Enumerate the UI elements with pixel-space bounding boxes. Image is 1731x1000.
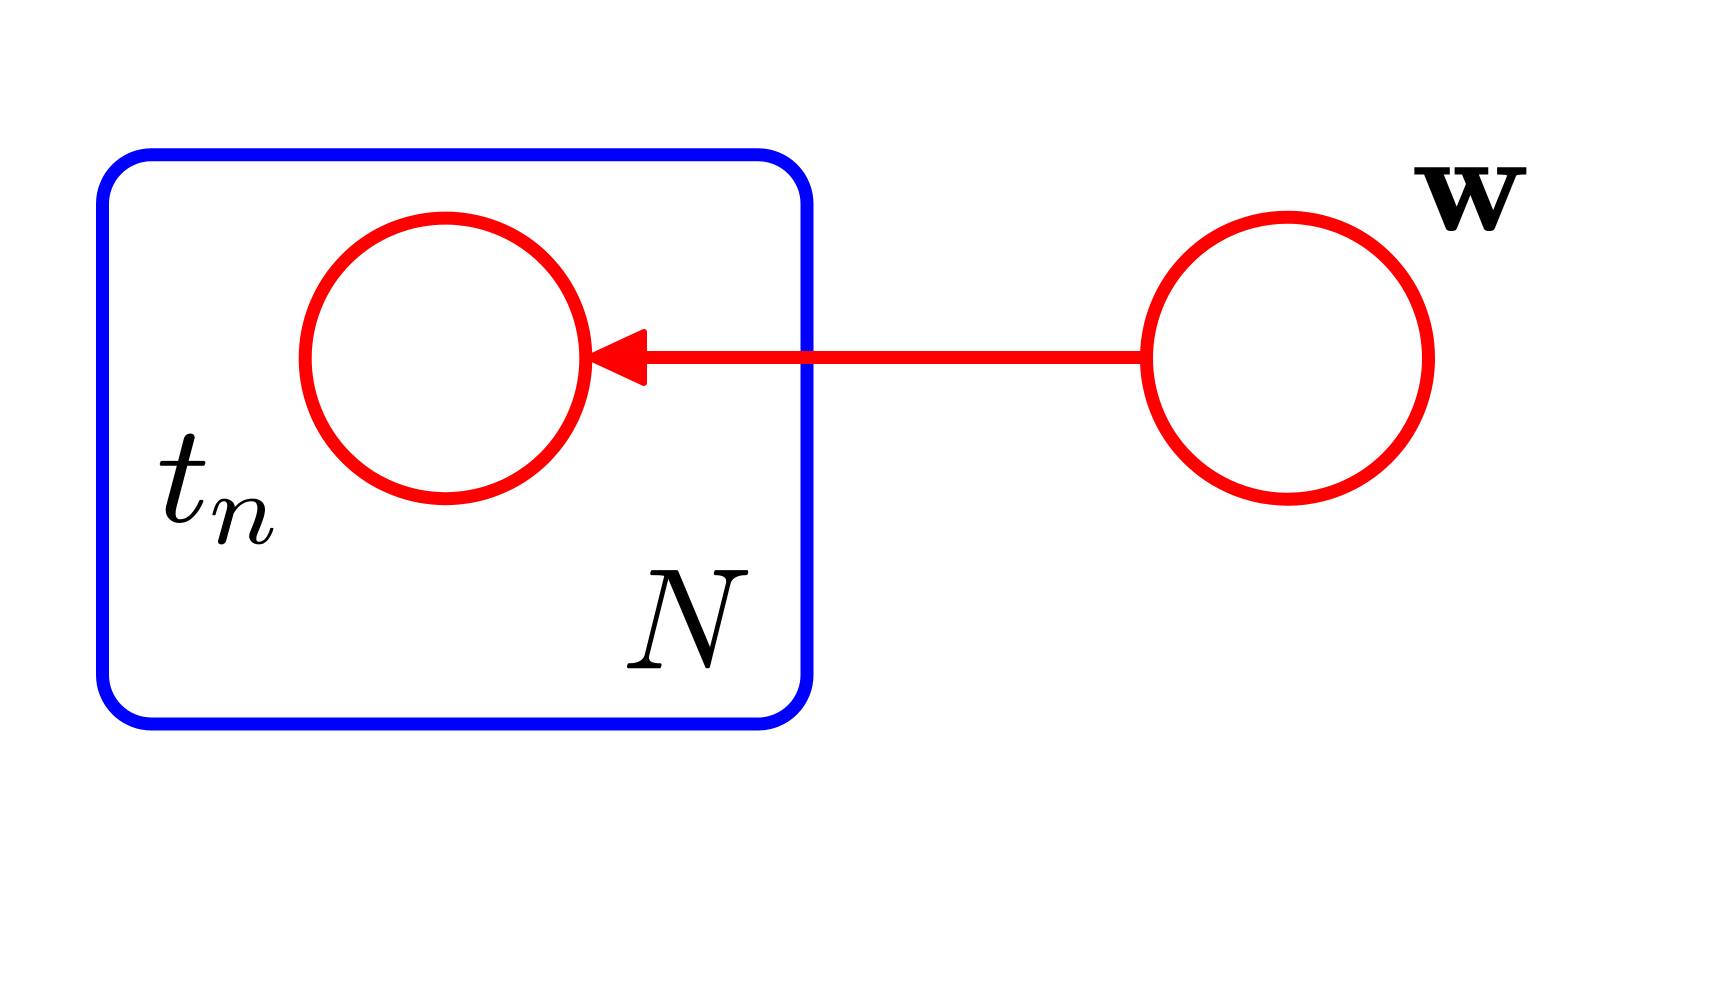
label n (subscript of t_n) xyxy=(212,499,273,545)
arrowhead into node t_n xyxy=(589,332,644,383)
label t (math italic) of t_n xyxy=(160,433,206,523)
node w (red circle, right) xyxy=(1147,217,1429,499)
node t_n (red circle inside plate) xyxy=(305,218,586,499)
plate N (blue rounded rectangle) xyxy=(103,155,808,724)
label w (bold, node w) xyxy=(1414,167,1526,231)
label N (plate count, math italic) xyxy=(627,570,748,668)
wire: arrow shaft from node w to node t_n xyxy=(640,351,1150,364)
